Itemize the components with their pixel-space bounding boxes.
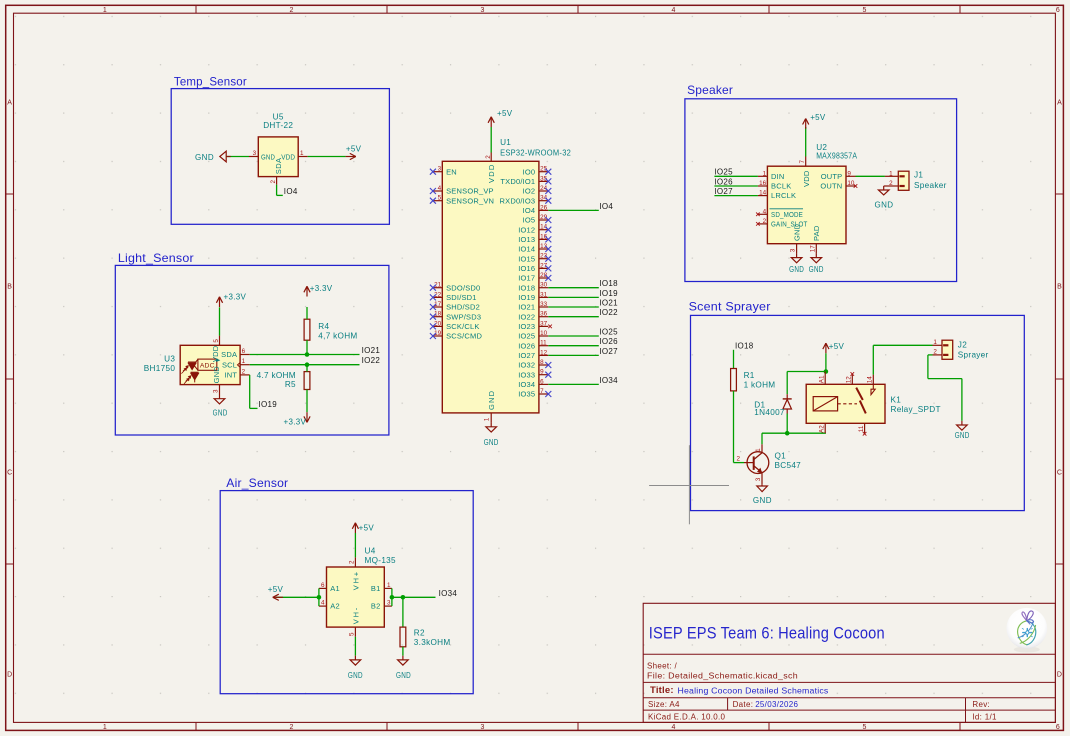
svg-text:+5V: +5V	[346, 144, 362, 153]
svg-text:+3.3V: +3.3V	[224, 293, 247, 302]
svg-text:GND: GND	[875, 201, 894, 210]
svg-text:GND: GND	[753, 496, 772, 505]
svg-text:D: D	[7, 672, 12, 679]
svg-text:VDD: VDD	[487, 164, 496, 183]
svg-text:A2: A2	[330, 602, 340, 611]
svg-text:14: 14	[759, 190, 767, 197]
svg-text:OUTN: OUTN	[820, 182, 842, 191]
svg-text:MAX98357A: MAX98357A	[816, 151, 857, 160]
svg-text:7: 7	[540, 388, 544, 395]
svg-text:IO16: IO16	[518, 264, 535, 273]
svg-text:VDD: VDD	[802, 170, 811, 187]
svg-text:3: 3	[438, 166, 442, 173]
svg-text:IO27: IO27	[714, 187, 733, 196]
svg-text:ISEP EPS Team 6: Healing Cocoo: ISEP EPS Team 6: Healing Cocoon	[649, 623, 885, 642]
svg-text:3: 3	[481, 7, 485, 14]
svg-text:SHD/SD2: SHD/SD2	[446, 303, 480, 312]
svg-text:6: 6	[1056, 7, 1060, 14]
svg-text:3: 3	[790, 248, 797, 252]
svg-text:2: 2	[763, 218, 767, 225]
svg-text:IO21: IO21	[518, 303, 535, 312]
svg-text:2: 2	[270, 180, 277, 184]
svg-text:Date:: Date:	[733, 700, 754, 709]
svg-text:25/03/2026: 25/03/2026	[755, 700, 798, 709]
svg-text:IO19: IO19	[599, 289, 618, 298]
svg-text:3: 3	[481, 724, 485, 731]
svg-text:IO18: IO18	[735, 341, 754, 350]
svg-text:GND: GND	[212, 366, 221, 384]
svg-text:37: 37	[540, 320, 548, 327]
svg-text:IO15: IO15	[518, 254, 535, 263]
svg-text:IO4: IO4	[284, 187, 298, 196]
svg-text:3: 3	[755, 477, 762, 481]
svg-text:1: 1	[889, 170, 893, 177]
svg-text:17: 17	[809, 245, 816, 253]
svg-text:IO22: IO22	[362, 356, 381, 365]
svg-text:Speaker: Speaker	[914, 181, 947, 190]
svg-text:GND: GND	[487, 390, 496, 410]
svg-text:B: B	[1057, 284, 1062, 291]
svg-text:IO5: IO5	[523, 216, 536, 225]
svg-text:Air_Sensor: Air_Sensor	[226, 476, 288, 490]
svg-text:IO34: IO34	[599, 376, 618, 385]
svg-text:5: 5	[213, 339, 220, 343]
svg-text:IO22: IO22	[518, 312, 535, 321]
svg-text:IO18: IO18	[599, 279, 618, 288]
svg-text:IO19: IO19	[518, 293, 535, 302]
svg-text:R5: R5	[285, 380, 296, 389]
svg-text:4: 4	[763, 208, 767, 215]
svg-text:+3.3V: +3.3V	[284, 418, 307, 427]
svg-text:BCLK: BCLK	[771, 182, 791, 191]
svg-text:SDA: SDA	[221, 350, 237, 359]
svg-text:5: 5	[863, 7, 867, 14]
svg-text:IO0: IO0	[523, 167, 536, 176]
svg-text:30: 30	[540, 282, 548, 289]
svg-text:7: 7	[799, 160, 806, 164]
svg-text:+5V: +5V	[497, 109, 513, 118]
svg-text:11: 11	[858, 425, 865, 432]
svg-text:J1: J1	[914, 171, 923, 180]
svg-text:A1: A1	[330, 584, 340, 593]
svg-text:SCL: SCL	[222, 360, 237, 369]
svg-text:A1: A1	[818, 375, 825, 383]
svg-text:Id: 1/1: Id: 1/1	[972, 712, 997, 721]
svg-text:12: 12	[540, 349, 548, 356]
svg-text:Scent Sprayer: Scent Sprayer	[689, 300, 771, 314]
svg-text:BC547: BC547	[775, 461, 802, 470]
svg-text:IO35: IO35	[518, 390, 535, 399]
svg-text:IO26: IO26	[599, 337, 618, 346]
svg-text:IO4: IO4	[523, 206, 536, 215]
svg-text:4: 4	[672, 7, 676, 14]
svg-text:3.3kOHM: 3.3kOHM	[414, 638, 451, 647]
svg-text:Speaker: Speaker	[687, 83, 733, 97]
svg-text:IO32: IO32	[518, 361, 535, 370]
svg-text:4: 4	[672, 724, 676, 731]
svg-text:2: 2	[736, 455, 740, 462]
svg-text:SENSOR_VN: SENSOR_VN	[446, 196, 494, 205]
svg-text:LRCLK: LRCLK	[771, 191, 796, 200]
svg-text:D: D	[1057, 672, 1062, 679]
svg-text:IO26: IO26	[518, 341, 535, 350]
svg-text:J2: J2	[958, 340, 967, 349]
svg-text:GND: GND	[792, 223, 801, 241]
svg-text:VH+: VH+	[351, 570, 360, 590]
svg-text:6: 6	[242, 348, 246, 355]
svg-text:BH1750: BH1750	[144, 364, 176, 373]
svg-text:12: 12	[846, 376, 853, 384]
svg-text:B2: B2	[371, 602, 381, 611]
svg-text:A: A	[1057, 99, 1062, 106]
svg-text:U4: U4	[365, 547, 376, 556]
svg-text:IO21: IO21	[362, 346, 381, 355]
svg-text:INT: INT	[225, 371, 238, 380]
svg-text:OUTP: OUTP	[821, 172, 843, 181]
svg-text:9: 9	[540, 369, 544, 376]
svg-text:IO18: IO18	[518, 283, 535, 292]
svg-text:4: 4	[438, 185, 442, 192]
svg-text:IO27: IO27	[599, 347, 618, 356]
svg-text:1: 1	[933, 339, 937, 346]
svg-text:IO33: IO33	[518, 370, 535, 379]
svg-text:Sprayer: Sprayer	[958, 351, 989, 360]
svg-text:U3: U3	[164, 355, 175, 364]
svg-text:C: C	[1057, 469, 1062, 476]
svg-text:2: 2	[349, 560, 356, 564]
svg-text:VDD: VDD	[211, 345, 220, 362]
svg-text:2: 2	[290, 7, 294, 14]
svg-text:PAD: PAD	[812, 225, 821, 241]
svg-text:3: 3	[213, 389, 220, 393]
svg-text:VDD: VDD	[281, 152, 295, 161]
svg-text:C: C	[7, 469, 12, 476]
svg-text:Relay_SPDT: Relay_SPDT	[891, 405, 941, 414]
svg-text:IO27: IO27	[518, 351, 535, 360]
svg-text:16: 16	[759, 180, 767, 187]
svg-text:1: 1	[103, 724, 107, 731]
svg-text:Title:: Title:	[650, 685, 674, 696]
svg-text:1: 1	[483, 417, 490, 421]
svg-text:10: 10	[847, 180, 855, 187]
svg-text:9: 9	[847, 170, 851, 177]
svg-text:IO25: IO25	[714, 168, 733, 177]
svg-text:2: 2	[485, 155, 492, 159]
svg-text:31: 31	[540, 291, 548, 298]
svg-text:EN: EN	[446, 167, 457, 176]
svg-text:IO12: IO12	[518, 225, 535, 234]
svg-text:IO23: IO23	[518, 322, 535, 331]
svg-text:K1: K1	[891, 396, 902, 405]
svg-text:1: 1	[242, 358, 246, 365]
svg-text:SDO/SD0: SDO/SD0	[446, 283, 480, 292]
svg-text:3: 3	[253, 150, 257, 157]
svg-text:IO26: IO26	[714, 177, 733, 186]
svg-text:2: 2	[933, 349, 937, 356]
svg-text:IO22: IO22	[599, 308, 618, 317]
svg-text:4: 4	[321, 600, 325, 607]
svg-text:GND: GND	[213, 408, 228, 417]
svg-text:Size: A4: Size: A4	[648, 700, 680, 709]
svg-text:ESP32-WROOM-32: ESP32-WROOM-32	[500, 148, 571, 157]
svg-text:GND: GND	[195, 153, 214, 162]
svg-text:1: 1	[387, 582, 391, 589]
svg-text:5: 5	[863, 724, 867, 731]
svg-text:IO25: IO25	[599, 327, 618, 336]
svg-text:DIN: DIN	[771, 172, 785, 181]
svg-text:SWP/SD3: SWP/SD3	[446, 312, 481, 321]
svg-text:MQ-135: MQ-135	[365, 556, 397, 565]
svg-text:Healing Cocoon Detailed Schema: Healing Cocoon Detailed Schematics	[678, 685, 829, 695]
svg-text:IO4: IO4	[599, 202, 613, 211]
svg-text:IO13: IO13	[518, 235, 535, 244]
svg-text:8: 8	[540, 359, 544, 366]
svg-text:SCS/CMD: SCS/CMD	[446, 332, 482, 341]
svg-text:VH-: VH-	[351, 606, 360, 624]
svg-text:GND: GND	[955, 431, 970, 440]
svg-text:R2: R2	[414, 629, 425, 638]
svg-text:Rev:: Rev:	[972, 700, 990, 709]
svg-text:1N4007: 1N4007	[754, 408, 785, 417]
svg-text:B: B	[7, 284, 12, 291]
svg-text:1: 1	[300, 150, 304, 157]
svg-text:10: 10	[540, 330, 548, 337]
svg-text:Light_Sensor: Light_Sensor	[118, 251, 194, 265]
svg-text:IO34: IO34	[518, 380, 535, 389]
svg-text:IO25: IO25	[518, 332, 535, 341]
svg-text:GND: GND	[789, 265, 804, 274]
svg-text:R1: R1	[744, 371, 755, 380]
svg-text:+3.3V: +3.3V	[310, 284, 333, 293]
svg-text:GAIN_SLOT: GAIN_SLOT	[771, 220, 808, 229]
svg-text:SDI/SD1: SDI/SD1	[446, 293, 477, 302]
svg-text:IO21: IO21	[599, 298, 618, 307]
svg-text:2: 2	[290, 724, 294, 731]
svg-text:5: 5	[438, 195, 442, 202]
svg-text:5: 5	[348, 632, 355, 636]
svg-text:SENSOR_VP: SENSOR_VP	[446, 187, 494, 196]
svg-text:File: Detailed_Schematic.kicad: File: Detailed_Schematic.kicad_sch	[647, 672, 798, 681]
svg-text:Sheet: /: Sheet: /	[647, 662, 677, 671]
svg-text:TXD0/IO1: TXD0/IO1	[500, 177, 535, 186]
svg-text:11: 11	[540, 340, 547, 347]
svg-text:DHT-22: DHT-22	[263, 121, 293, 130]
svg-text:GND: GND	[484, 438, 499, 447]
svg-text:GND: GND	[348, 671, 363, 680]
svg-text:14: 14	[867, 376, 874, 384]
svg-text:+5V: +5V	[359, 524, 375, 533]
svg-text:IO19: IO19	[259, 400, 278, 409]
svg-text:Q1: Q1	[775, 452, 787, 461]
svg-text:IO2: IO2	[523, 187, 536, 196]
svg-text:26: 26	[540, 204, 548, 211]
svg-text:3: 3	[387, 600, 391, 607]
svg-text:+5V: +5V	[810, 113, 826, 122]
svg-text:IO14: IO14	[518, 245, 535, 254]
svg-text:R4: R4	[318, 322, 329, 331]
svg-text:6: 6	[1056, 724, 1060, 731]
svg-text:2: 2	[242, 368, 246, 375]
svg-text:+5V: +5V	[268, 585, 284, 594]
svg-text:SCK/CLK: SCK/CLK	[446, 322, 480, 331]
svg-text:2: 2	[889, 180, 893, 187]
svg-text:IO17: IO17	[518, 274, 535, 283]
svg-text:1: 1	[763, 170, 767, 177]
svg-text:A: A	[7, 99, 12, 106]
svg-text:33: 33	[540, 301, 548, 308]
svg-text:Temp_Sensor: Temp_Sensor	[174, 75, 247, 89]
svg-text:6: 6	[540, 378, 544, 385]
svg-text:1 kOHM: 1 kOHM	[744, 381, 776, 390]
svg-text:36: 36	[540, 311, 548, 318]
svg-text:1: 1	[103, 7, 107, 14]
svg-text:SDA: SDA	[274, 158, 283, 175]
svg-text:IO34: IO34	[439, 589, 458, 598]
svg-text:1: 1	[755, 448, 762, 452]
svg-text:RXD0/IO3: RXD0/IO3	[500, 196, 536, 205]
svg-text:A2: A2	[818, 425, 825, 433]
svg-text:KiCad E.D.A. 10.0.0: KiCad E.D.A. 10.0.0	[648, 712, 726, 721]
svg-text:SD_MODE: SD_MODE	[771, 210, 803, 219]
svg-text:4,7 kOHM: 4,7 kOHM	[318, 332, 357, 341]
svg-text:6: 6	[321, 582, 325, 589]
svg-text:U1: U1	[500, 138, 511, 147]
svg-text:GND: GND	[396, 671, 411, 680]
svg-text:+5V: +5V	[829, 342, 845, 351]
svg-text:B1: B1	[371, 584, 381, 593]
svg-text:GND: GND	[809, 265, 824, 274]
svg-text:4.7 kOHM: 4.7 kOHM	[257, 371, 296, 380]
